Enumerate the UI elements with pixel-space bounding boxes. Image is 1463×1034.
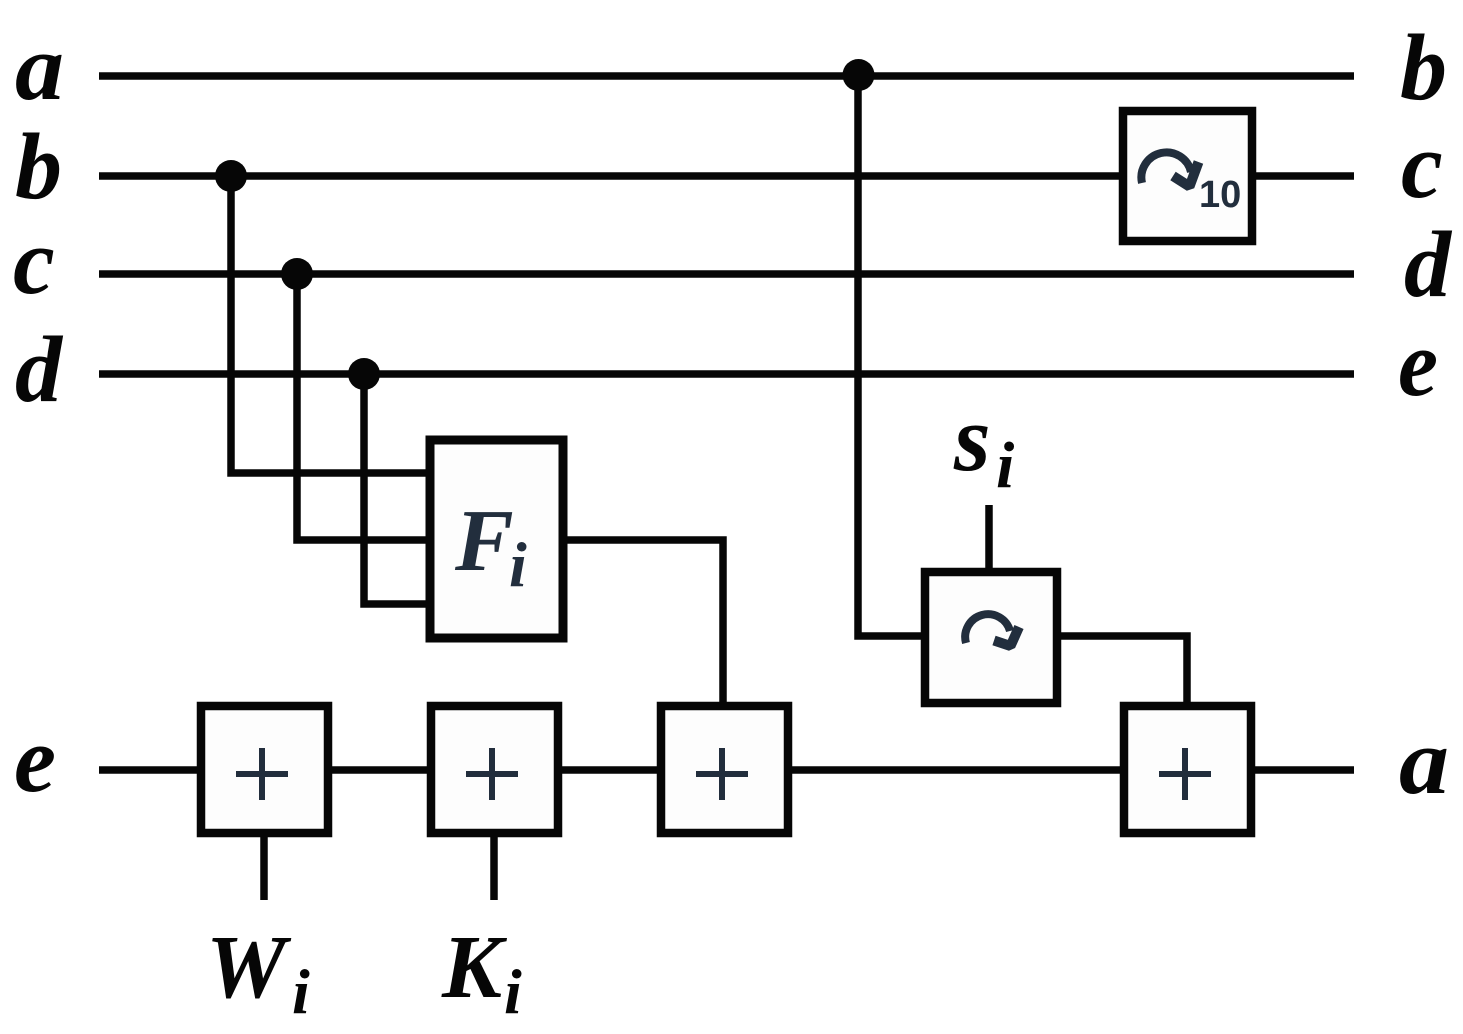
svg-text:c: c bbox=[13, 210, 55, 314]
plus sign adder 3 bbox=[696, 748, 748, 800]
svg-text:i: i bbox=[509, 529, 527, 600]
svg-text:i: i bbox=[504, 956, 522, 1027]
plus sign adder 1 bbox=[236, 748, 288, 800]
adder box 2 bbox=[431, 706, 558, 833]
adder box 1 bbox=[201, 706, 328, 833]
function box Fi bbox=[430, 440, 563, 638]
svg-text:b: b bbox=[15, 115, 62, 219]
svg-text:s: s bbox=[953, 387, 991, 491]
wire Wi input to adder 1 bbox=[260, 833, 268, 900]
rotate-10 arrow bbox=[1141, 152, 1198, 186]
plus sign adder 4 bbox=[1159, 748, 1211, 800]
node dot on b bbox=[215, 160, 247, 192]
svg-text:F: F bbox=[454, 493, 514, 590]
wire Ki input to adder 2 bbox=[490, 833, 498, 900]
wire c bbox=[99, 270, 1354, 278]
wire b bbox=[99, 172, 1354, 180]
plus sign adder 2 bbox=[466, 748, 518, 800]
svg-text:W: W bbox=[206, 918, 292, 1017]
rotate-s arrow bbox=[965, 614, 1019, 646]
svg-text:a: a bbox=[15, 16, 64, 120]
svg-text:10: 10 bbox=[1199, 174, 1241, 216]
wire a bbox=[99, 72, 1354, 80]
svg-text:i: i bbox=[292, 956, 310, 1027]
svg-text:a: a bbox=[1399, 710, 1449, 814]
svg-text:d: d bbox=[15, 318, 64, 422]
wire c-tap to Fi input 2 bbox=[297, 274, 432, 540]
node dot on a bbox=[843, 59, 875, 91]
wire b-tap to Fi input 1 bbox=[231, 176, 432, 473]
node dot on d bbox=[348, 358, 380, 390]
rotate-10 box bbox=[1123, 111, 1252, 241]
svg-text:e: e bbox=[14, 708, 56, 812]
wire si to rotate-s box bbox=[985, 505, 993, 574]
wire Fi output to adder 3 bbox=[561, 540, 723, 707]
wire d-tap to Fi input 3 bbox=[364, 374, 432, 604]
wire a-tap to rotate-s input bbox=[858, 76, 926, 636]
wire e bbox=[99, 766, 1354, 774]
wire rotate-s output to adder 4 bbox=[1057, 636, 1187, 707]
adder box 3 bbox=[661, 706, 788, 833]
svg-text:i: i bbox=[996, 429, 1015, 502]
svg-text:b: b bbox=[1400, 16, 1447, 120]
svg-text:d: d bbox=[1404, 213, 1453, 317]
wire d bbox=[99, 370, 1354, 378]
svg-text:c: c bbox=[1401, 114, 1443, 218]
svg-text:e: e bbox=[1398, 312, 1438, 416]
rotate-s box bbox=[925, 572, 1057, 703]
adder box 4 bbox=[1124, 706, 1251, 833]
svg-text:K: K bbox=[441, 918, 508, 1017]
node dot on c bbox=[281, 258, 313, 290]
